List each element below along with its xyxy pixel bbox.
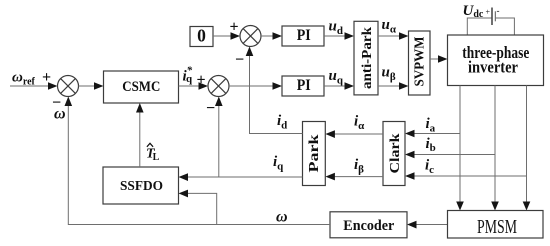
svg-text:−: − <box>206 100 215 117</box>
wire Encoder to J1 feedback <box>68 100 330 225</box>
block zero box <box>190 26 213 47</box>
svg-text:anti-Park: anti-Park <box>360 27 375 89</box>
wire ia to Clark <box>405 130 460 138</box>
block CSMC <box>104 71 179 103</box>
wire J2 feedback from iq line <box>215 97 223 178</box>
svg-text:0: 0 <box>197 26 206 46</box>
svg-text:−: − <box>235 52 244 69</box>
wire i_beta Clark to Park <box>325 173 383 181</box>
wire TL SSFDO to CSMC <box>136 103 144 167</box>
svg-text:PI: PI <box>297 77 311 94</box>
svg-text:SSFDO: SSFDO <box>120 179 163 194</box>
wire J2 to PI2 <box>229 82 282 90</box>
svg-text:i*q: i*q <box>183 65 193 86</box>
wire i_alpha Clark to Park <box>325 130 383 138</box>
summing junction J3 <box>240 26 261 47</box>
wire ib to Clark <box>405 151 495 159</box>
wire CSMC to J2 <box>179 82 209 90</box>
wire PI2 to antiPark <box>324 82 354 90</box>
svg-text:CSMC: CSMC <box>122 79 160 95</box>
wire zero to J3 <box>213 32 240 40</box>
wire inverter phase C down to PMSM <box>523 86 531 211</box>
block SSFDO <box>103 167 179 204</box>
svg-text:+: + <box>42 69 51 86</box>
block Clark <box>383 122 405 186</box>
wire inverter phase B down to PMSM <box>491 86 499 211</box>
wire omega branch to SSFDO <box>179 190 217 225</box>
battery Udc symbol <box>486 6 500 26</box>
wire battery left to inverter <box>467 18 491 35</box>
svg-text:+: + <box>486 8 491 17</box>
svg-text:-: - <box>497 6 500 16</box>
block SVPWM <box>409 31 431 95</box>
wire inverter phase A down to PMSM <box>456 86 464 211</box>
svg-text:+: + <box>230 19 239 36</box>
svg-text:inverter: inverter <box>468 58 518 77</box>
block Encoder <box>330 212 407 238</box>
svg-text:ω: ω <box>276 209 288 226</box>
summing junction J2 <box>208 76 229 97</box>
wire PI1 to antiPark <box>324 32 354 40</box>
summing junction J1 <box>58 76 79 97</box>
wire antiPark to SVPWM bottom <box>378 82 409 90</box>
label TL hat <box>146 143 160 163</box>
svg-text:SVPWM: SVPWM <box>413 37 428 87</box>
wire J3 to PI1 <box>261 32 282 40</box>
wire SVPWM to inverter <box>430 55 448 63</box>
wire iq Park to SSFDO <box>179 173 303 181</box>
svg-text:Park: Park <box>307 134 322 172</box>
wire battery right to inverter <box>496 18 515 35</box>
svg-text:PMSM: PMSM <box>477 216 517 238</box>
wire J1 to CSMC <box>79 82 104 90</box>
block PMSM <box>448 211 544 239</box>
block PI2 <box>282 76 324 96</box>
block anti-Park <box>354 21 378 95</box>
wire ic to Clark <box>405 172 527 180</box>
svg-text:Clark: Clark <box>388 133 403 173</box>
svg-text:PI: PI <box>297 27 311 44</box>
svg-text:ω: ω <box>54 106 66 123</box>
wire omega_ref input <box>10 82 58 90</box>
block three-phase inverter <box>448 35 544 86</box>
wire antiPark to SVPWM top <box>378 32 409 40</box>
block PI1 <box>282 26 324 46</box>
wire PMSM to Encoder <box>407 221 448 229</box>
wire id Park to J3 <box>246 47 303 134</box>
svg-text:Encoder: Encoder <box>343 218 394 234</box>
block Park <box>303 122 326 186</box>
arrowhead omega into J1 <box>65 97 73 107</box>
